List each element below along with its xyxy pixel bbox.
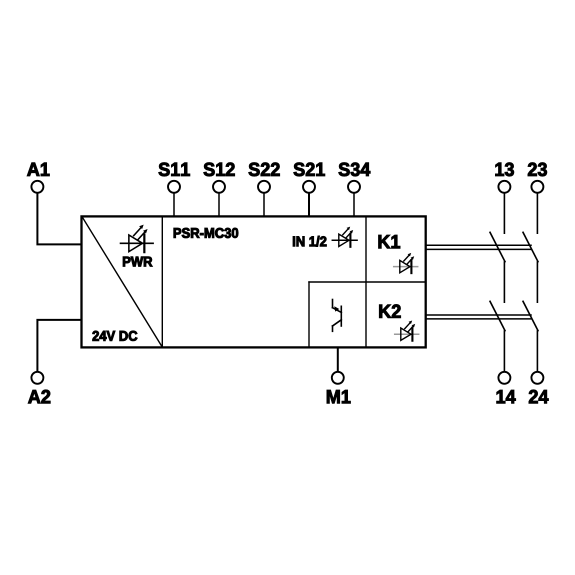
K1/K2 divider [309,281,425,283]
terminal S22 [258,181,270,193]
output driver sub-box left edge [308,282,310,347]
LED K2 [395,321,419,341]
terminal S11 [168,181,180,193]
label 24V DC [93,331,138,341]
relay K1 label [379,235,400,248]
terminal M1 [332,372,344,384]
wire to 14 [503,331,505,371]
power supply section divider [161,217,163,347]
main device box [82,216,426,347]
wire A2 to box [37,320,81,371]
LED PWR [121,225,154,253]
label PSR-MC30 [174,228,238,238]
terminal A1 [31,181,43,193]
wire S21 stub [308,193,310,216]
terminal 13 [498,181,510,193]
wire M1 stub [337,348,339,372]
wire S11 stub [173,193,175,216]
wire S34 stub [353,193,355,216]
contact K2 blade 13-14 [490,301,505,330]
relay section divider [365,217,367,347]
wire to 24 [536,331,538,371]
wire S12 stub [218,193,220,216]
wire S22 stub [263,193,265,216]
contact K1 blade 13-14 [490,232,505,261]
transistor Q1 output driver [333,300,342,332]
terminal 14 [498,372,510,384]
wire between contacts 13-14 [503,262,505,302]
LED IN1/2 [332,227,357,247]
terminal 23 [531,181,543,193]
wire 13 down [503,193,505,233]
wire A1 to box [37,193,81,244]
label PWR [123,257,152,267]
terminal A2 [31,372,43,384]
relay K2 label [379,305,400,318]
contact K2 blade 23-24 [523,301,538,330]
terminal S34 [348,181,360,193]
label IN 1/2 [293,236,326,247]
power supply diagonal [83,218,162,347]
LED K1 [394,253,418,273]
contact K1 blade 23-24 [523,232,538,261]
K1 linkage double line [426,245,531,249]
wire between contacts 23-24 [536,262,538,302]
terminal S12 [213,181,225,193]
wire 23 down [536,193,538,233]
K2 linkage double line [426,315,531,319]
terminal 24 [531,372,543,384]
terminal S21 [303,181,315,193]
